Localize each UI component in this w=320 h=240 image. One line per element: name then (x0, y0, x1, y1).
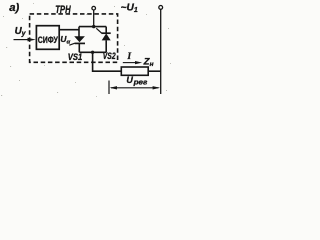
wire: VS1 anode lead (jog + drop to triangle) (78, 27, 80, 37)
wire: thyristor top rail (upper segment) (79, 26, 106, 28)
svg-text:рег: рег (132, 79, 147, 86)
wire: load to supply line (148, 70, 160, 72)
node: junction top rail / supply (92, 25, 95, 28)
resistor Zn (load box) (121, 67, 148, 75)
wire: right supply line (160, 9, 162, 94)
arrow Uy input (14, 39, 30, 41)
gate of VS1 (69, 43, 75, 45)
wire: left supply drop (93, 10, 95, 27)
wire: bottom rail (79, 51, 106, 53)
svg-text:ТРН: ТРН (55, 4, 71, 16)
supply terminal circle right (159, 6, 163, 10)
scan speckles (1, 3, 171, 97)
thyristor VS2 (conducts upward) (105, 27, 107, 34)
arrow I (load current) (123, 62, 137, 64)
wire: VS2 anode lead (105, 40, 107, 52)
dimension tick left (108, 81, 110, 95)
block SIFU (pulse-phase control system) (36, 26, 59, 50)
dashed box TPH (thyristor regulator enclosure) (30, 14, 118, 62)
svg-text:U: U (126, 75, 133, 85)
wire: VS1 cathode lead (78, 43, 80, 52)
node: junction bottom rail / output (91, 51, 94, 54)
svg-text:VS2: VS2 (103, 51, 116, 61)
dimension arrows Upeg (111, 87, 159, 89)
supply terminal circle left (92, 6, 96, 10)
wire: output drop and run to load (93, 52, 122, 71)
thyristor VS1 (conducts downward) (74, 36, 85, 42)
svg-text:VS1: VS1 (68, 52, 83, 62)
svg-text:I: I (126, 51, 131, 62)
svg-text:а): а) (9, 2, 19, 14)
gate of VS2 (96, 28, 101, 33)
wire: SIFU output to thyristor top rail (lower segment) (59, 29, 79, 31)
svg-text:СИФУ: СИФУ (38, 35, 58, 45)
paper background (0, 0, 175, 102)
